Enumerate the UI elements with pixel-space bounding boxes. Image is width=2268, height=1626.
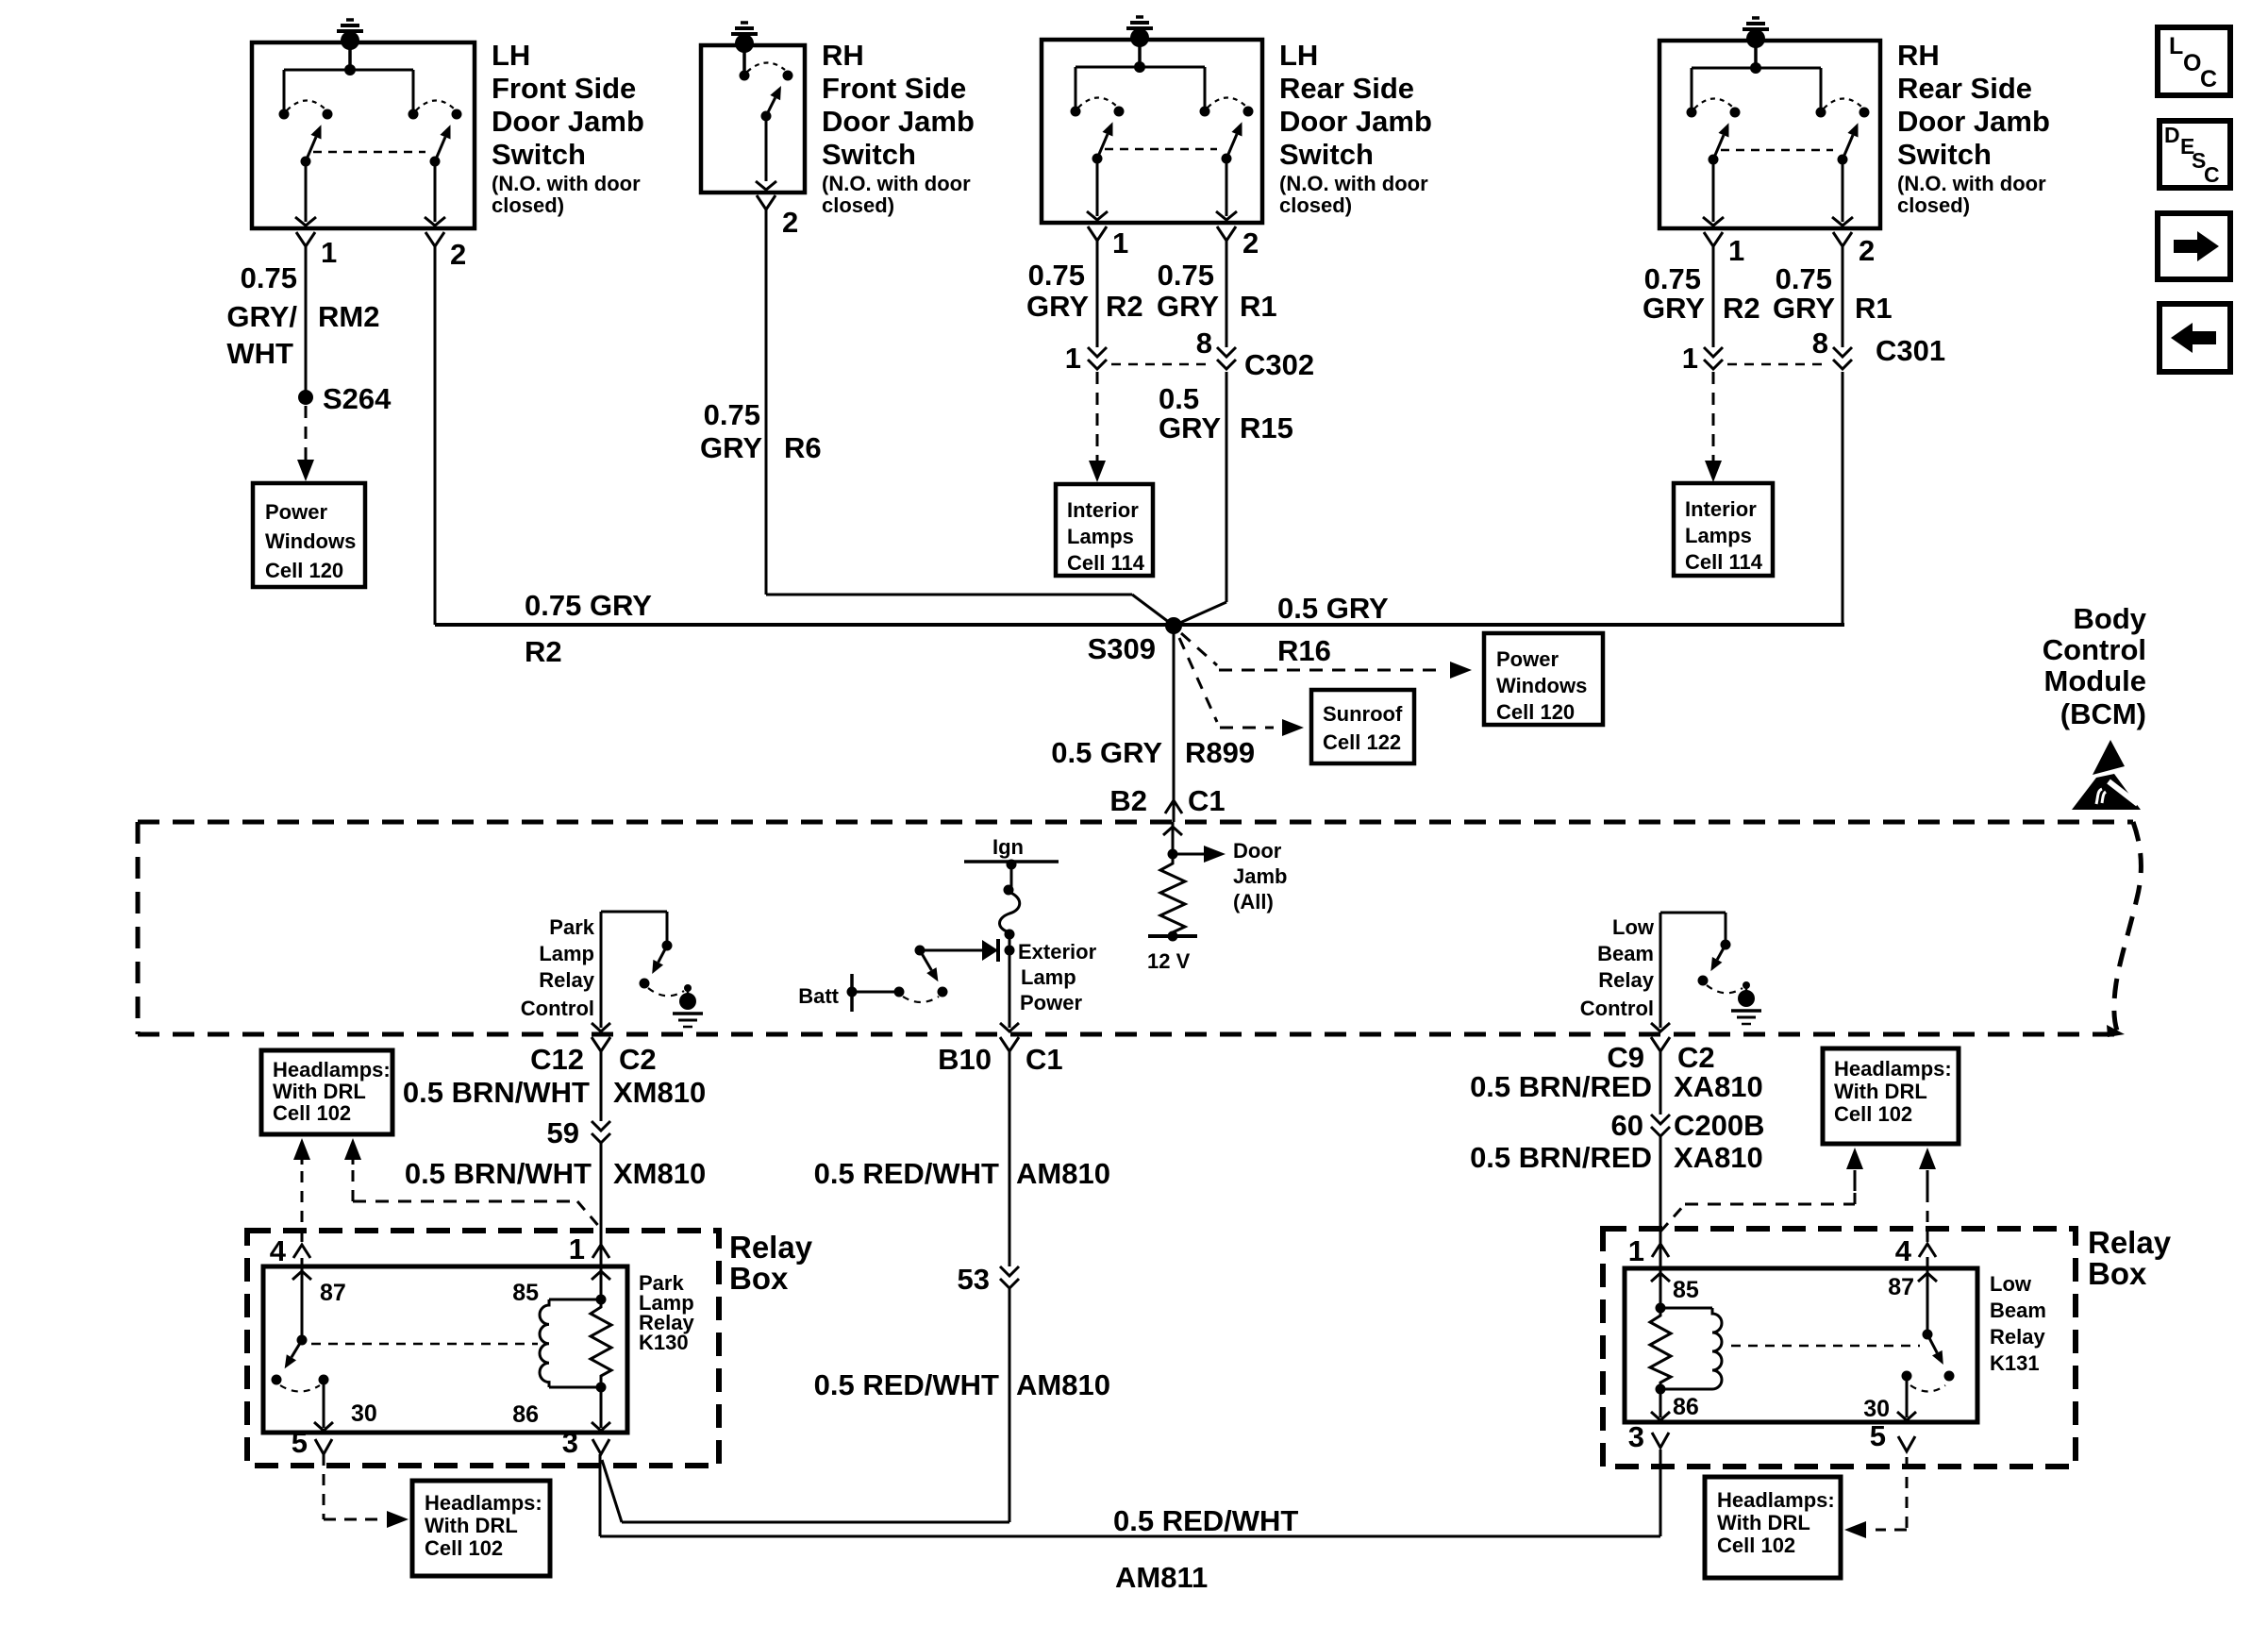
wire XM810 upper [600,1066,603,1121]
svg-text:GRY: GRY [1159,411,1221,444]
svg-text:C301: C301 [1876,334,1945,367]
wire dashed relay pin4 to headlamps (right) [1919,1148,1936,1242]
svg-text:5: 5 [292,1426,308,1459]
svg-text:0.5 BRN/RED: 0.5 BRN/RED [1470,1070,1652,1103]
svg-text:With DRL: With DRL [425,1514,518,1537]
svg-text:85: 85 [1673,1277,1699,1303]
svg-text:(N.O. with door: (N.O. with door [492,172,641,195]
svg-text:Lamp: Lamp [539,942,594,965]
svg-text:RM2: RM2 [318,300,379,333]
svg-text:Interior: Interior [1067,498,1139,522]
svg-text:8: 8 [1812,327,1828,360]
svg-text:R2: R2 [1723,292,1760,325]
wire BCM B2 input with resistor [1163,822,1182,860]
box Headlamps With DRL Cell 102 (upper right) [1823,1048,1959,1144]
pin 1 SW3 [1088,226,1128,260]
svg-text:4: 4 [270,1234,287,1267]
connector 60 C200B [1611,1109,1765,1142]
svg-text:C: C [2200,66,2217,92]
icon arrow right [2158,213,2230,279]
label 0.5 BRN/RED XA810 (upper) [1470,1070,1763,1103]
label SW4 title [1897,39,2050,217]
svg-text:Headlamps:: Headlamps: [273,1058,391,1081]
svg-text:0.75 GRY: 0.75 GRY [525,589,652,622]
svg-text:2: 2 [450,238,466,271]
label 0.5 BRN/WHT XM810 (lower) [405,1157,706,1190]
wire Door Jamb output arrow [1173,846,1226,863]
box Headlamps With DRL Cell 102 (bottom left) [412,1481,550,1576]
connector C12 C2 [530,1037,657,1076]
svg-text:C200B: C200B [1674,1109,1765,1142]
wire XA810 upper [1659,1066,1662,1115]
svg-text:With DRL: With DRL [273,1080,366,1103]
pin 86 K131 [1651,1389,1699,1420]
svg-text:30: 30 [351,1400,377,1427]
svg-text:Lamps: Lamps [1067,525,1134,548]
module Body Control Module dashed outline [138,822,2141,1037]
svg-text:0.5 RED/WHT: 0.5 RED/WHT [1113,1504,1298,1537]
svg-text:closed): closed) [1279,193,1352,217]
label 0.5 BRN/WHT XM810 (upper) [403,1076,706,1109]
wire R15 (C302 pin8 to S309) [1174,372,1226,626]
svg-text:87: 87 [320,1280,346,1306]
svg-text:0.5 BRN/WHT: 0.5 BRN/WHT [403,1076,590,1109]
svg-text:1: 1 [569,1232,585,1266]
svg-text:0.5 RED/WHT: 0.5 RED/WHT [814,1157,999,1190]
pin 4 relay box left [270,1234,310,1267]
svg-text:C2: C2 [619,1043,657,1076]
svg-text:R16: R16 [1277,634,1331,667]
svg-text:Sunroof: Sunroof [1323,702,1403,726]
svg-text:Rear Side: Rear Side [1279,72,1414,105]
svg-text:8: 8 [1196,327,1212,360]
wire dashed XA810 branch to headlamps [1660,1148,1863,1232]
icon arrow left [2160,304,2230,372]
box Headlamps With DRL Cell 102 (bottom right) [1705,1477,1841,1578]
box Headlamps With DRL Cell 102 (upper left) [261,1050,392,1134]
pin 1 relay box right [1628,1234,1669,1268]
svg-text:Door: Door [1233,839,1282,863]
svg-text:3: 3 [1628,1420,1644,1453]
coil K130 [512,1266,610,1393]
power Ign feed [964,860,1059,870]
svg-text:C12: C12 [530,1043,584,1076]
svg-text:Cell 102: Cell 102 [425,1536,503,1560]
label Low Beam Relay Control [1580,915,1655,1020]
svg-text:Cell 120: Cell 120 [1496,700,1575,724]
svg-text:Beam: Beam [1990,1299,2046,1322]
svg-text:(BCM): (BCM) [2060,697,2146,730]
link dashed K130 coil-switch [311,1343,538,1346]
svg-text:Rear Side: Rear Side [1897,72,2032,105]
power Batt feed [847,974,858,1012]
svg-text:With DRL: With DRL [1717,1511,1810,1534]
label Ign [992,835,1024,859]
svg-text:0.5 BRN/WHT: 0.5 BRN/WHT [405,1157,592,1190]
relay K130 Park Lamp Relay [263,1266,627,1433]
wire dashed XM810 branch to headlamps [344,1138,601,1229]
symbol ESD sensitive device [2072,740,2141,810]
switch SW1 LH Front Side Door Jamb Switch [252,42,475,228]
svg-text:5: 5 [1870,1419,1886,1452]
pin 5 relay box left [292,1426,332,1459]
wire dashed S309 to Sunroof [1179,638,1304,736]
svg-text:12 V: 12 V [1147,949,1191,973]
svg-text:Switch: Switch [1897,138,1992,171]
svg-text:With DRL: With DRL [1834,1080,1927,1103]
svg-text:1: 1 [1728,234,1744,267]
svg-text:Cell 102: Cell 102 [1834,1102,1912,1126]
switch SW2 RH Front Side Door Jamb Switch [701,45,805,193]
svg-text:0.75: 0.75 [1158,259,1214,292]
coil ignition feed [1000,864,1020,940]
svg-text:Headlamps:: Headlamps: [425,1491,542,1515]
svg-text:85: 85 [512,1280,539,1306]
svg-text:0.75: 0.75 [1028,259,1085,292]
label SW1 title [492,39,644,217]
label Relay Box (right) [2088,1225,2172,1291]
connector 53 [958,1263,1019,1296]
wire XA810 lower [1659,1136,1662,1246]
svg-text:C302: C302 [1244,348,1314,381]
pin 87 K130 switch [272,1266,346,1392]
svg-text:(N.O. with door: (N.O. with door [1279,172,1428,195]
svg-text:Cell 122: Cell 122 [1323,730,1401,754]
pin 86 K130 [512,1387,610,1431]
svg-text:0.75: 0.75 [241,261,297,294]
wire XM810 lower [600,1143,603,1246]
svg-text:Windows: Windows [265,529,356,553]
svg-text:Lamp: Lamp [1021,965,1076,989]
connector 59 [547,1116,610,1149]
svg-text:Relay: Relay [1990,1325,2045,1349]
splice S309 [1088,617,1182,665]
svg-text:B2: B2 [1109,784,1147,817]
coil K131 [1651,1268,1722,1395]
wire R6 (SW2 pin2 to splice S309) [766,210,1174,626]
wire AM810 lower [602,1288,1009,1522]
svg-text:S309: S309 [1088,632,1156,665]
icon DESC [2160,121,2230,188]
box Sunroof Cell 122 [1311,690,1414,763]
wire dashed S309 to Power Windows (right) [1181,633,1472,679]
ground (RH front switch) [731,23,758,53]
box Relay Box (right) dashed [1603,1229,2076,1467]
svg-text:Control: Control [2043,633,2146,666]
svg-text:GRY: GRY [1773,292,1835,325]
svg-text:Box: Box [729,1261,789,1296]
wire Exterior Lamp Power [1000,934,1019,1031]
svg-text:C1: C1 [1026,1043,1063,1076]
connector C9 C2 [1607,1037,1714,1074]
svg-text:Interior: Interior [1685,497,1757,521]
box Interior Lamps Cell 114 (left) [1056,484,1153,576]
svg-text:AM810: AM810 [1016,1368,1110,1401]
svg-text:XM810: XM810 [613,1157,706,1190]
wire C301 pin8 down to bus [1842,372,1844,625]
svg-text:GRY: GRY [1157,290,1219,323]
label Body Control Module (BCM) [2043,602,2147,730]
svg-text:Body: Body [2074,602,2147,635]
svg-text:Door Jamb: Door Jamb [492,105,644,138]
svg-text:Park: Park [549,915,594,939]
label bus right [1277,592,1389,667]
label 0.5 RED/WHT AM811 [1113,1504,1298,1594]
pin 1 SW4 [1704,232,1744,267]
pin 87 K131 switch [1888,1268,1954,1392]
wire R2 (SW1 pin2 down to bus) [434,246,437,625]
svg-text:Switch: Switch [492,138,586,171]
svg-text:2: 2 [782,206,798,239]
diode exterior lamp power [920,939,998,962]
label wire RM2 [226,261,379,370]
svg-text:0.5: 0.5 [1159,382,1199,415]
svg-text:R6: R6 [784,431,822,464]
svg-text:0.5 BRN/RED: 0.5 BRN/RED [1470,1141,1652,1174]
svg-text:0.75: 0.75 [704,398,760,431]
svg-text:60: 60 [1611,1109,1643,1142]
svg-text:closed): closed) [822,193,894,217]
svg-text:Box: Box [2088,1256,2147,1291]
svg-text:RH: RH [822,39,864,72]
svg-text:Control: Control [521,997,594,1020]
svg-text:Cell 114: Cell 114 [1685,550,1763,574]
svg-text:O: O [2183,50,2201,76]
box Power Windows Cell 120 (right) [1484,633,1603,725]
connector B2 C1 [1109,784,1225,817]
svg-text:AM810: AM810 [1016,1157,1110,1190]
switch exterior-lamp-power (internal) [852,946,948,1003]
box Relay Box (left) dashed [247,1231,719,1466]
svg-text:C1: C1 [1188,784,1226,817]
ground (RH rear switch) [1743,18,1769,48]
svg-text:AM811: AM811 [1115,1561,1208,1594]
svg-text:Low: Low [1612,915,1655,939]
svg-text:Batt: Batt [798,984,839,1008]
pin 4 relay box right [1895,1234,1936,1268]
wire R1 to C301 [1842,246,1844,347]
svg-text:1: 1 [1628,1234,1644,1267]
svg-text:3: 3 [562,1426,578,1459]
svg-text:XA810: XA810 [1674,1141,1763,1174]
svg-text:Relay: Relay [2088,1225,2172,1260]
svg-text:XA810: XA810 [1674,1070,1763,1103]
wire low beam relay control output [1651,913,1670,1031]
svg-text:B10: B10 [938,1043,992,1076]
svg-text:Exterior: Exterior [1018,940,1097,964]
label Door Jamb (All) [1233,839,1287,914]
svg-text:LH: LH [492,39,530,72]
resistor K131 [1650,1308,1671,1389]
switch SW3 LH Rear Side Door Jamb Switch [1042,40,1262,223]
switch park lamp relay control (internal) [601,912,684,996]
svg-text:Front Side: Front Side [492,72,636,105]
svg-text:59: 59 [547,1116,579,1149]
svg-text:C: C [2204,162,2220,187]
svg-text:Power: Power [265,500,327,524]
label Park Lamp Relay Control [521,915,595,1020]
box Interior Lamps Cell 114 (right) [1674,483,1773,576]
svg-text:closed): closed) [1897,193,1970,217]
wire dashed pin5 to headlamps (bottom right) [1844,1457,1907,1538]
svg-text:Beam: Beam [1597,942,1654,965]
svg-text:Door Jamb: Door Jamb [1897,105,2050,138]
relay K131 Low Beam Relay [1625,1268,1977,1422]
label bus left [525,589,652,668]
label Batt [798,984,839,1008]
svg-text:Relay: Relay [1598,968,1654,992]
svg-text:86: 86 [1673,1394,1699,1420]
label 0.5 RED/WHT AM810 (lower) [814,1368,1110,1401]
svg-text:Cell 102: Cell 102 [273,1101,351,1125]
ground (LH rear switch) [1126,17,1153,47]
pin 2 SW4 [1833,232,1875,267]
label Low Beam Relay K131 [1990,1272,2046,1375]
switch low beam relay control (internal) [1660,913,1743,993]
wire AM810 upper [1009,1066,1011,1266]
wire RM2 (pin1 to S264) [305,246,308,397]
svg-text:Relay: Relay [729,1230,813,1265]
splice S264 [298,382,392,415]
switch SW4 RH Rear Side Door Jamb Switch [1659,41,1880,228]
svg-text:1: 1 [1682,342,1698,375]
wire R2 to C301 [1712,246,1715,347]
svg-text:0.75: 0.75 [1776,262,1832,295]
svg-text:R1: R1 [1855,292,1893,325]
svg-text:WHT: WHT [226,337,293,370]
label SW3 title [1279,39,1432,217]
svg-text:GRY/: GRY/ [226,300,297,333]
svg-text:(N.O. with door: (N.O. with door [1897,172,2046,195]
svg-text:closed): closed) [492,193,564,217]
wire dashed C301 pin1 to Interior Lamps [1705,372,1722,482]
wire dashed pin5 to headlamps (bottom left) [324,1454,409,1528]
svg-text:0.5 GRY: 0.5 GRY [1051,736,1162,769]
pin 2 SW2 [757,195,798,239]
connector C301 [1682,327,1945,375]
svg-text:86: 86 [512,1401,539,1428]
svg-text:Power: Power [1496,647,1559,671]
svg-text:LH: LH [1279,39,1318,72]
svg-text:K131: K131 [1990,1351,2040,1375]
svg-text:Switch: Switch [822,138,916,171]
label 0.5 BRN/RED XA810 (lower) [1470,1141,1763,1174]
svg-text:(All): (All) [1233,890,1274,914]
label wire R6 [700,398,822,464]
label wire R1 (LH rear) [1157,259,1277,323]
link dashed K131 coil-switch [1731,1345,1920,1348]
box Power Windows Cell 120 (left) [253,483,365,587]
svg-text:Power: Power [1020,991,1082,1014]
svg-text:Door Jamb: Door Jamb [1279,105,1432,138]
svg-text:Headlamps:: Headlamps: [1834,1057,1952,1081]
ground park lamp relay control [673,984,703,1027]
svg-text:Jamb: Jamb [1233,864,1287,888]
svg-text:Door Jamb: Door Jamb [822,105,975,138]
label wire R899 [1051,736,1255,769]
wire R899 (S309 down to BCM B2) [1173,626,1176,822]
label Exterior Lamp Power [1018,940,1097,1014]
svg-text:53: 53 [958,1263,990,1296]
svg-text:Ign: Ign [992,835,1024,859]
wire R2 to C302 [1096,241,1099,347]
wire AM811 (K130 pin3 to K131 pin3) [600,1450,1660,1536]
svg-text:1: 1 [1112,226,1128,260]
icon LOC [2158,27,2230,95]
svg-text:K130: K130 [639,1331,689,1354]
pin 2 SW3 [1217,226,1259,260]
svg-text:1: 1 [1065,342,1081,375]
wire dashed C302 pin1 to Interior Lamps [1089,372,1106,482]
svg-text:0.5 GRY: 0.5 GRY [1277,592,1389,625]
svg-text:Cell 120: Cell 120 [265,559,343,582]
pin 3 relay box right [1628,1420,1669,1453]
label Relay Box (left) [729,1230,813,1296]
svg-text:S264: S264 [323,382,392,415]
wire dashed S264 to Power Windows [297,406,314,481]
svg-text:GRY: GRY [1643,292,1705,325]
wire park lamp relay control output [592,912,610,1031]
label wire R15 [1159,382,1293,444]
pin 1 SW1 [296,232,337,269]
svg-text:Cell 114: Cell 114 [1067,551,1145,575]
svg-text:Relay: Relay [539,968,594,992]
svg-text:C2: C2 [1677,1041,1715,1074]
power 12 V [1147,931,1197,974]
pin 30 K130 [314,1380,377,1431]
svg-text:GRY: GRY [700,431,762,464]
svg-text:Lamps: Lamps [1685,524,1752,547]
wire R1 to C302 [1226,241,1228,347]
svg-text:R1: R1 [1240,290,1277,323]
svg-text:Front Side: Front Side [822,72,966,105]
pin 2 SW1 [425,232,466,271]
svg-text:XM810: XM810 [613,1076,706,1109]
svg-text:2: 2 [1859,234,1875,267]
connector C302 [1065,327,1314,381]
svg-text:0.5 RED/WHT: 0.5 RED/WHT [814,1368,999,1401]
svg-text:Switch: Switch [1279,138,1374,171]
svg-text:R15: R15 [1240,411,1293,444]
svg-text:Headlamps:: Headlamps: [1717,1488,1835,1512]
svg-text:C9: C9 [1607,1041,1644,1074]
label 0.5 RED/WHT AM810 (upper) [814,1157,1110,1190]
connector B10 C1 [938,1037,1063,1076]
svg-text:Module: Module [2044,664,2147,697]
svg-text:30: 30 [1863,1396,1890,1422]
svg-text:GRY: GRY [1026,290,1089,323]
pin 1 relay box left [569,1232,609,1266]
label wire R2 (RH rear) [1643,262,1760,325]
svg-text:D: D [2164,123,2180,147]
svg-text:Cell 102: Cell 102 [1717,1534,1795,1557]
pin 30 K131 [1863,1376,1916,1422]
svg-text:2: 2 [1242,226,1259,260]
pin 5 relay box right [1870,1419,1915,1452]
svg-text:R899: R899 [1185,736,1255,769]
resistor door jamb pull-up [1160,854,1185,936]
label SW2 title [822,39,975,217]
svg-text:R2: R2 [525,635,562,668]
resistor K130 [591,1299,611,1387]
label Park Lamp Relay K130 [639,1271,694,1354]
wire dashed relay pin4 to headlamps [293,1138,310,1242]
svg-text:1: 1 [321,236,337,269]
svg-text:RH: RH [1897,39,1940,72]
ground low beam relay control [1731,981,1761,1024]
ground (LH front switch) [337,20,363,50]
svg-text:4: 4 [1895,1234,1912,1267]
